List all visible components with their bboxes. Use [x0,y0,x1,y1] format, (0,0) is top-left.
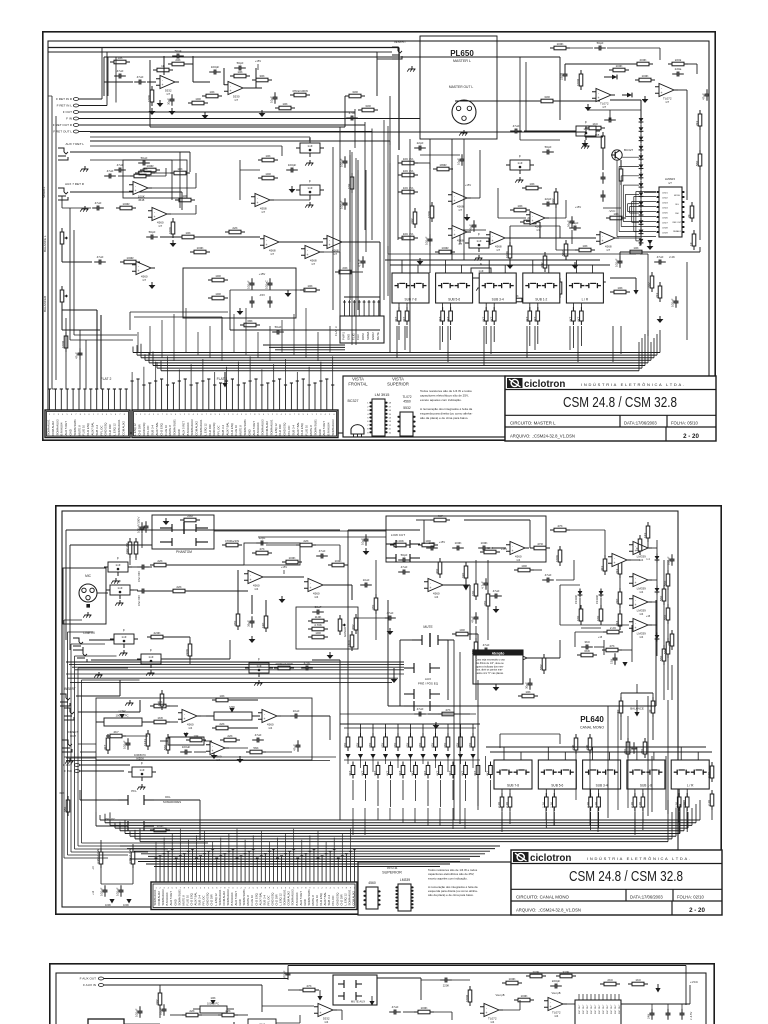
connector FLAT 1 block [132,410,338,438]
svg-text:F: F [519,155,521,159]
svg-text:100K: 100K [454,541,461,545]
wire chain top [640,100,642,116]
svg-text:PFL: PFL [131,789,137,793]
svg-text:GND: GND [177,429,181,435]
svg-text:PFL OC: PFL OC [287,426,291,436]
svg-text:22K: 22K [219,722,224,726]
wire c4 [416,162,430,164]
svg-text:100R: 100R [126,256,134,260]
svg-text:GANHO: GANHO [343,626,347,637]
ground 47K p3 [317,996,322,1001]
svg-text:GND ESQ: GND ESQ [212,422,216,436]
svg-text:MUTE 8: MUTE 8 [309,425,313,436]
wire gain down [469,640,471,700]
svg-text:20R: 20R [187,514,193,518]
wire aux send A2 [360,724,362,736]
resistor 1K5 [602,132,604,136]
svg-text:47K: 47K [306,984,311,988]
svg-text:100K: 100K [105,903,111,907]
svg-text:10K: 10K [117,56,122,60]
svg-text:RST OUT: RST OUT [615,1004,617,1014]
diode LED chain 6 [640,162,642,165]
wire SUB 3-4 down [485,326,487,344]
svg-text:F INC: F INC [64,769,73,773]
wire rl [667,560,669,574]
svg-text:MIC: MIC [85,574,92,578]
svg-text:SUB 3-4: SUB 3-4 [492,298,504,302]
op-amp LM339 3 [633,596,648,609]
wire balance ch [621,692,653,694]
svg-text:6K8: 6K8 [584,649,590,653]
wire aux send B7 [440,780,442,807]
svg-text:Todos resistores são de 1/4 W: Todos resistores são de 1/4 W e todos [420,389,472,393]
svg-text:LINE IN: LINE IN [83,631,95,635]
ground U5 [151,282,153,285]
svg-text:SUB 3-4: SUB 3-4 [291,424,295,435]
title block logo ciclotron [507,378,523,388]
wire p3 opamp out [333,1009,342,1011]
svg-text:47uF: 47uF [417,707,424,711]
svg-text:Vout pB: Vout pB [551,991,560,995]
wire aux send A1 [347,724,349,736]
svg-text:MUTE 8: MUTE 8 [239,425,243,436]
wire line [89,639,114,641]
svg-text:FLAT 3: FLAT 3 [334,326,338,336]
wire L / R down [572,326,574,348]
svg-text:56pF: 56pF [175,49,182,53]
ground fr [659,316,661,319]
svg-text:1nF: 1nF [307,144,312,148]
wire top right drop [519,57,521,140]
svg-text:10K: 10K [307,284,312,288]
svg-text:10uF: 10uF [363,578,370,582]
svg-text:SUB 3-4: SUB 3-4 [95,424,99,435]
wire c5 [555,206,557,250]
wire phantom to strip [214,530,386,532]
svg-text:SUB 3-4: SUB 3-4 [151,424,155,435]
wire aux send A5 [397,724,399,736]
capacitor 47uF/63V b [137,590,142,592]
svg-text:RST OUT: RST OUT [587,1004,589,1014]
svg-text:+10: +10 [92,890,95,895]
svg-text:+: + [634,626,636,630]
svg-text:SOMA SUB1: SOMA SUB1 [243,419,247,436]
ground p3 mid [233,1022,235,1024]
svg-text:+: + [161,83,163,87]
op-amp 5532 p3 [318,1004,333,1017]
connector XLR MIC [63,568,106,624]
svg-text:1/4: 1/4 [188,726,192,730]
wire c2 [240,169,260,171]
svg-text:+15: +15 [598,636,603,639]
svg-text:22K: 22K [227,734,232,738]
svg-text:L.ESQ 12: L.ESQ 12 [133,423,137,436]
wire p1 ml2 [118,175,133,177]
svg-text:+: + [485,1011,487,1015]
svg-text:F IN: F IN [66,117,72,121]
wire aux send B11 [490,780,492,807]
svg-text:220k: 220k [675,58,682,62]
svg-text:47uF: 47uF [255,733,262,737]
wire strip in [266,544,298,546]
svg-text:1.00K: 1.00K [396,539,404,543]
svg-text:SUPERIOR: SUPERIOR [387,382,409,387]
svg-text:+: + [137,269,139,273]
svg-text:+: + [634,581,636,585]
svg-text:SOMA SUB1: SOMA SUB1 [73,419,77,436]
wire aux in [104,984,262,986]
op-amp U3 4560 [264,236,279,249]
svg-text:MUTE AUX: MUTE AUX [351,1000,365,1004]
wire Q1 [620,160,622,166]
wire SUB 5-6 down [442,326,444,342]
wire balance [61,248,63,262]
diode out b [656,586,658,589]
wire aux grid 6 [422,756,424,764]
wire routing 1 [90,131,586,133]
svg-text:F: F [150,649,152,653]
ground rails [287,290,289,293]
svg-text:L.ESQ 12: L.ESQ 12 [274,423,278,436]
diode LED chain 3 [640,134,642,137]
svg-text:1/7: 1/7 [234,98,238,102]
svg-text:100K: 100K [334,559,341,563]
op-amp U21 4560 [248,571,263,584]
wire eqx [124,735,148,737]
wire fader feed [388,253,636,255]
svg-text:1/4: 1/4 [490,1020,494,1024]
wire la box [123,160,187,198]
svg-text:220K: 220K [153,631,160,635]
svg-text:1/7: 1/7 [333,252,337,256]
svg-text:47uF: 47uF [349,111,356,115]
svg-text:RST OUT: RST OUT [611,1004,613,1014]
svg-text:100K: 100K [641,74,648,78]
wire FLAT3 riser [344,296,380,298]
svg-text:1K8: 1K8 [157,716,163,720]
wire aux grid 11 [485,756,487,772]
wire FLAT3 pin [373,300,375,316]
svg-text:GND: GND [318,429,322,435]
svg-text:2 - 20: 2 - 20 [683,433,699,440]
svg-text:+: + [549,1005,551,1009]
wire left mid drops [69,208,71,340]
svg-text:220K: 220K [443,984,450,988]
svg-text:BC327: BC327 [348,399,359,403]
svg-text:SOMA AUX1: SOMA AUX1 [47,419,51,435]
wire LM3915 pins [644,192,656,194]
svg-text:SUB 1-2: SUB 1-2 [535,298,547,302]
connector FLAT 2 block [45,410,130,438]
capacitor pol p3r b [681,1008,683,1013]
svg-text:SUPERIOR: SUPERIOR [382,871,402,875]
svg-text:1/4: 1/4 [639,612,643,616]
switch block p2 L / R [671,760,709,789]
svg-text:SOMA AUX1: SOMA AUX1 [199,419,203,435]
svg-text:SIG: SIG [675,204,679,206]
capacitor TH2/100 a [602,172,604,177]
svg-text:AUX: AUX [425,677,431,681]
wire riser bundle mid [351,152,353,345]
op-amp U22 4560 [308,579,323,592]
svg-text:470Ra/1W: 470Ra/1W [225,539,239,543]
wire gain [443,584,470,586]
svg-text:1N4148: 1N4148 [596,595,599,604]
op-amp U28 4560 [210,742,225,755]
diode 1N4148 p2 a [579,589,581,592]
svg-text:+: + [309,586,311,590]
svg-text:100K: 100K [196,246,203,250]
svg-text:1/7: 1/7 [311,262,315,266]
svg-text:PRÉ / PÓS EQ: PRÉ / PÓS EQ [418,681,439,686]
svg-text:10K 1%: 10K 1% [403,169,414,173]
resistor M05 [620,165,622,169]
switch block p2 SUB 1-8 [627,760,665,789]
svg-text:CH3: CH3 [356,334,360,340]
wire aux send A10 [460,724,462,736]
wire meter bottom [620,251,700,253]
svg-text:AUX 7 RET R: AUX 7 RET R [65,182,85,186]
svg-text:330K: 330K [562,970,569,974]
svg-text:ROM: ROM [361,333,365,340]
op-amp U8 LM3915 [659,187,682,237]
op-amp LM339 2 [633,574,648,587]
svg-text:CANAL MONO: CANAL MONO [580,726,604,730]
svg-text:SOMA SUB1: SOMA SUB1 [173,419,177,436]
svg-text:47Ra/100W: 47Ra/100W [292,89,308,93]
svg-text:REFADJ: REFADJ [673,230,681,233]
wire direct out [78,743,96,745]
switch block p2 SUB 5-6 [538,760,576,789]
svg-text:1/7: 1/7 [665,100,669,104]
svg-text:47uF: 47uF [483,643,490,647]
wire connector pins p2 [155,858,157,882]
svg-text:1K0: 1K0 [592,122,598,126]
wire eq [168,705,178,707]
ground phantom [165,518,167,521]
capacitor TH2/100 b [602,190,604,195]
capacitor 220K p3r [440,979,445,981]
svg-text:GND2: GND2 [371,332,375,340]
svg-text:+: + [601,239,603,243]
svg-text:22K: 22K [157,559,162,563]
svg-text:1nF: 1nF [476,239,481,243]
wire chain tap [624,194,626,216]
svg-text:são da placa) e de cima para b: são da placa) e de cima para baixo. [420,416,468,420]
wire FLAT3 pin [353,300,355,316]
svg-text:PFL OC: PFL OC [146,426,150,436]
svg-text:200K: 200K [532,970,539,974]
wire p1 midleft lines [90,151,180,153]
ground eqx [574,262,576,265]
switch AUX PRE/POS c [404,705,414,707]
diode 1N4148 b [622,94,627,96]
ground t2 [365,548,367,551]
op-amp U11 4558 [255,194,270,207]
svg-text:B.M AUX4: B.M AUX4 [256,422,260,435]
svg-text:L.ESQ 12: L.ESQ 12 [113,423,117,436]
diode LED chain 12 [640,218,642,221]
svg-text:LED9: LED9 [662,233,668,235]
svg-text:SOMA SUB1: SOMA SUB1 [313,419,317,436]
svg-text:+: + [634,603,636,607]
svg-text:MUTE: MUTE [376,332,380,340]
ground fout [141,784,143,787]
svg-text:100pF: 100pF [211,65,220,69]
ground out [495,606,497,609]
wire p2 SUB 1-8 down [634,812,636,832]
svg-text:MODE: MODE [674,195,681,197]
svg-text:47R: 47R [537,542,543,546]
svg-text:1/7: 1/7 [458,242,462,246]
ground U1 region [204,112,206,115]
op-amp U14 4568 b [452,226,467,239]
svg-text:CH3 ESQ: CH3 ESQ [86,422,90,435]
svg-text:PFL OC: PFL OC [99,426,103,436]
svg-text:10R: 10R [521,564,527,568]
svg-text:AUX7 BAL: AUX7 BAL [225,422,229,436]
wire p3 opamp in [262,1005,314,1007]
pot GANHO [339,615,341,619]
svg-text:+: + [453,199,455,203]
wire chain tap [622,185,624,221]
svg-text:COM AUX2: COM AUX2 [121,421,125,436]
svg-text:+15V: +15V [465,183,471,187]
op-amp U9 4568 [490,232,505,245]
diode LED chain 9 [640,190,642,193]
svg-text:+15V: +15V [439,540,445,544]
svg-text:-15V: -15V [259,293,265,297]
wire amp box [150,126,345,128]
svg-text:LM 3915: LM 3915 [375,393,390,397]
svg-text:10R: 10R [215,292,221,296]
wire aux grid 5 [410,756,412,772]
wire mid route d [332,147,334,310]
svg-text:10K: 10K [265,154,270,158]
wire fr [686,262,688,340]
wire SUB 7-8 down [398,326,400,340]
wire aux send A4 [385,724,387,736]
svg-text:ciclotron: ciclotron [524,379,565,390]
svg-text:1/7: 1/7 [158,224,162,228]
svg-text:F: F [478,233,480,237]
svg-text:10K: 10K [137,170,142,174]
wire eq feed bundle [64,756,336,758]
wire left border drops [51,96,53,389]
wire p3r in [421,979,441,981]
op-amp TL072 p3 a [484,1004,499,1017]
svg-text:56K: 56K [253,746,258,750]
wire insert [76,695,120,697]
svg-text:BALANCE L: BALANCE L [43,235,47,252]
svg-text:100K: 100K [480,541,487,545]
svg-text:47uF: 47uF [657,255,664,259]
wire p3 x [124,1023,160,1024]
svg-text:F.LIG 10: F.LIG 10 [164,424,168,435]
switch block SUB 5-6 [436,273,473,303]
svg-text:RST OUT: RST OUT [607,1004,609,1014]
svg-text:CH2 DIR: CH2 DIR [278,424,282,435]
svg-text:2.2K: 2.2K [610,626,616,630]
svg-text:ARQUIVO: .:CSM24-32.8_V1.DSN: ARQUIVO: .:CSM24-32.8_V1.DSN [516,908,581,913]
svg-text:1nF: 1nF [517,161,522,165]
wire mic [97,592,108,594]
ground amp fb [151,108,153,111]
op-amp U27 4560 [262,710,277,723]
wire lm [320,251,340,253]
wire left bundle p2 [63,620,65,858]
title block [511,850,722,915]
svg-text:S/N3DXL: S/N3DXL [42,186,46,198]
svg-text:47K: 47K [609,644,614,648]
ground low2 p2 [435,722,437,725]
page 1 sheet [43,32,715,440]
ground gain [329,652,331,655]
svg-text:47uF: 47uF [401,565,408,569]
svg-text:47uF: 47uF [319,549,326,553]
svg-text:22pF: 22pF [417,141,424,145]
wire FLAT3 pin [358,300,360,316]
svg-text:F: F [258,658,260,662]
wire lowcut box [386,516,546,562]
svg-text:F: F [480,263,482,267]
wire channel strip box [387,600,389,706]
diode out a [656,554,658,557]
svg-text:+: + [153,215,155,219]
wire aux grid 0 [347,756,349,764]
svg-text:INSERT: INSERT [394,40,406,44]
svg-text:GND ESQ: GND ESQ [283,422,287,436]
wire xlr routing [409,139,411,352]
svg-text:1K: 1K [161,64,165,68]
ground fader right [633,290,638,295]
wire p3r vcc [621,1003,690,1005]
wire p2 SUB 7-8 down [501,812,503,826]
svg-text:SOMA AUX1: SOMA AUX1 [269,419,273,435]
svg-text:LED4: LED4 [662,208,668,210]
wire right col [671,665,673,700]
wire bus band p2 mid [120,845,500,847]
svg-text:BALANCER: BALANCER [43,295,47,312]
ground XLR [463,130,465,133]
wire chain tap [627,204,629,212]
wire long route b [70,544,152,546]
wire midcol [475,560,477,584]
wire redge [663,560,665,589]
svg-text:TL072: TL072 [402,395,411,399]
wire FLAT3 pin [348,300,350,316]
svg-text:CH2 DIR: CH2 DIR [208,424,212,435]
svg-text:56pF: 56pF [597,41,604,45]
svg-text:100KB PC: 100KB PC [134,753,146,757]
svg-text:+: + [429,586,431,590]
svg-text:+: + [613,561,615,565]
svg-text:4.70K: 4.70K [314,623,322,627]
wire balance down [651,756,653,812]
svg-text:+15V: +15V [255,59,261,63]
wire meter col [699,128,701,152]
svg-text:100R: 100R [146,164,154,168]
svg-text:1K5: 1K5 [595,133,600,137]
svg-text:SUB 3-4: SUB 3-4 [596,784,608,788]
svg-text:10K: 10K [517,204,522,208]
title block [505,376,716,441]
wire aux grid 9 [460,756,462,764]
svg-text:10K 1%: 10K 1% [403,232,414,236]
svg-text:AUX 5 RET: AUX 5 RET [322,421,326,436]
switch block SUB 3-4 [479,273,516,303]
wire t2 [375,560,377,598]
